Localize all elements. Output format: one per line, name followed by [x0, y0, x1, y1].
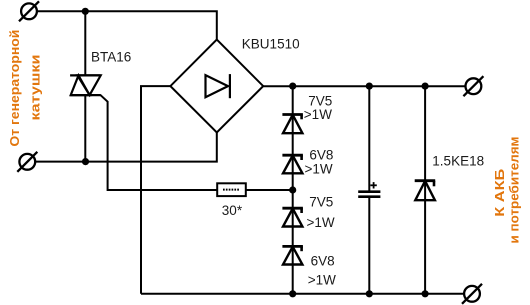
triac BTA16 [70, 75, 101, 95]
zener diode VD1 7V5 [282, 115, 303, 134]
svg-text:К АКБ: К АКБ [492, 169, 507, 217]
wire: bridge left (minus) to bottom rail [141, 86, 170, 294]
svg-text:KBU1510: KBU1510 [242, 37, 300, 52]
capacitor C1 (electrolytic) [358, 86, 380, 294]
bridge rectifier KBU1510 [170, 40, 263, 133]
zener diode VD4 6V8 [282, 246, 303, 264]
wire: triac main terminal down to bottom-left wire [84, 95, 86, 162]
node: junction bottom-left wire / triac [82, 158, 89, 165]
svg-text:От генераторной: От генераторной [7, 30, 22, 147]
node: top rail / capacitor [366, 83, 373, 90]
label 7V5 >1W (VD1) [304, 94, 333, 122]
TVS diode 1.5KE18 [415, 86, 436, 294]
label 6V8 >1W (VD2) [305, 148, 334, 177]
node: capacitor / bottom rail [366, 290, 373, 297]
svg-text:>1W: >1W [305, 162, 333, 177]
node: junction top wire / triac branch [82, 8, 89, 15]
svg-text:катушки: катушки [28, 54, 43, 120]
label 7V5 >1W (VD3) [307, 195, 335, 230]
svg-text:и потребителям: и потребителям [506, 137, 521, 244]
node: zener tap / resistor [289, 186, 296, 193]
wire: top rail (plus) bridge right to top-right terminal [263, 85, 465, 87]
node: zener chain / bottom rail [289, 290, 296, 297]
wire: bottom rail [141, 293, 464, 295]
terminal X1 (top-left, AC input) [19, 1, 39, 21]
wire: bottom-left terminal to bridge bottom corner [36, 132, 217, 161]
node: top rail / zener chain [289, 83, 296, 90]
svg-text:>1W: >1W [304, 107, 332, 122]
wire: junction down to triac [84, 11, 86, 75]
net label: От генераторной катушки [7, 30, 43, 147]
svg-text:BTA16: BTA16 [91, 50, 131, 65]
node: TVS / bottom rail [422, 290, 429, 297]
terminal X3 (top-right, +output) [463, 76, 483, 96]
svg-text:7V5: 7V5 [309, 195, 333, 210]
resistor R1 30* (gate resistor) [217, 183, 246, 196]
wire: resistor to zener tap [246, 189, 293, 191]
svg-text:6V8: 6V8 [311, 254, 335, 269]
label 6V8 >1W (VD4) [308, 254, 336, 288]
svg-text:>1W: >1W [308, 273, 336, 288]
zener diode VD3 7V5 [282, 208, 303, 226]
net label: К АКБ и потребителям [492, 137, 521, 244]
svg-text:>1W: >1W [307, 215, 335, 230]
terminal X2 (bottom-left, AC input) [17, 152, 37, 172]
svg-text:6V8: 6V8 [309, 148, 333, 163]
wire: triac gate to resistor [100, 95, 217, 190]
svg-text:30*: 30* [222, 203, 243, 218]
wire: zener chain vertical [292, 86, 294, 294]
node: top rail / TVS [422, 83, 429, 90]
terminal X4 (bottom-right, -output) [462, 284, 482, 304]
svg-text:1.5KE18: 1.5KE18 [432, 154, 484, 169]
wire: top-left terminal to bridge top [37, 11, 217, 39]
zener diode VD2 6V8 [282, 155, 303, 173]
